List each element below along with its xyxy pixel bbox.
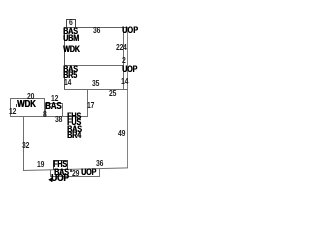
dim 49 (118, 129, 125, 138)
notch vertical (17) (87, 89, 88, 117)
bottom bump bottom edge (50, 176, 100, 177)
FHS inset box (53, 160, 68, 161)
WDK box left (10, 98, 11, 116)
label BAS (stack) (67, 125, 82, 134)
label BR4 (67, 131, 81, 140)
label BAS bottom (54, 168, 69, 177)
dim 8 (43, 110, 47, 119)
box A top edge (64, 27, 128, 28)
arrow for bottom-left UOP (47, 175, 53, 184)
bottom bump right step (99, 169, 100, 177)
dim 32 (22, 141, 29, 150)
dim 14 right (121, 77, 128, 86)
dim 19 (37, 160, 44, 169)
right edge long vertical (127, 27, 128, 168)
stray tick before WDK (16, 104, 18, 107)
label UOP big bottom-left (51, 174, 69, 183)
WDK box top (10, 98, 44, 99)
label BAS (box A) (63, 27, 78, 36)
label BR5 (63, 71, 77, 80)
bottom outline (slightly sloped) (23, 167, 128, 171)
label UBM (63, 34, 79, 43)
label BAS (box B) (63, 65, 78, 74)
label BAS (small box) (45, 102, 61, 111)
box A/B left edge (64, 27, 65, 90)
dim 38 (55, 115, 62, 124)
dim 25 (109, 89, 116, 98)
bottom bump left step (50, 170, 51, 176)
label FUS (67, 118, 81, 127)
label WDK (middle box) (17, 100, 36, 109)
box 6 (small porch box on top) (66, 19, 76, 20)
dim 17 (87, 101, 94, 110)
label UOP bottom (81, 168, 96, 177)
left long vertical (32) (23, 116, 24, 171)
box B bottom / body top (64, 89, 128, 90)
strip left line (123, 27, 124, 90)
dim 29 (72, 169, 79, 178)
dim 14 left (64, 78, 71, 87)
label FHS (stack) (67, 112, 81, 121)
label WDK (box A) (63, 45, 80, 54)
label UOP mid right (122, 65, 137, 74)
dim 35 (92, 79, 99, 88)
stray tick after BAS (70, 169, 72, 172)
BAS small box right (62, 103, 63, 117)
notch horizontal + BAS box bottom + WDK box bottom (10, 116, 87, 117)
dim 12 (above BAS box) (51, 94, 58, 103)
dim 36 top (93, 26, 100, 35)
BAS small box left (45, 103, 46, 117)
WDK box right (44, 98, 45, 116)
dim 22 (116, 43, 123, 52)
label FHS (inset box) (53, 160, 67, 169)
dim 36 bottom (96, 159, 103, 168)
dim 4 (123, 43, 127, 52)
dim 20 (27, 92, 34, 101)
BAS small box top (45, 103, 63, 104)
dim 2 (122, 56, 126, 65)
label UOP top right (122, 26, 138, 35)
dim 12 (WDK left) (9, 107, 16, 116)
divider between box A and box B (64, 65, 123, 66)
dim 6 (69, 18, 73, 27)
